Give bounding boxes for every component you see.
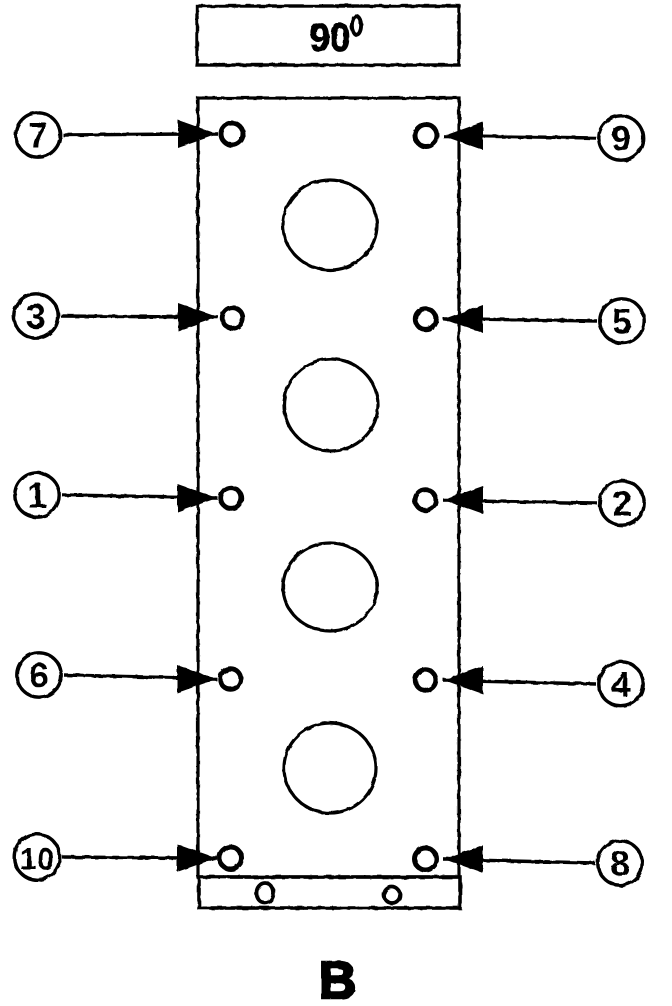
90-degree label box [197,6,459,65]
callout circle 9 [599,116,643,160]
callout circle 4 [599,662,643,706]
callout circle 3 [14,294,58,338]
svg-text:1: 1 [27,477,46,516]
cylinder bore 3 [283,543,377,631]
arrow 2 to bolt row3 right [443,486,597,514]
svg-text:B: B [319,952,357,1006]
callout circle 10 [14,834,60,880]
callout circle 2 [600,481,644,525]
svg-text:90: 90 [310,16,351,60]
svg-text:3: 3 [26,298,45,337]
callout circle 8 [598,841,642,885]
bolt hole row5 right [415,848,437,870]
arrow 1 to bolt row3 left [62,484,218,512]
svg-text:5: 5 [612,303,631,342]
callout circle 6 [17,653,61,697]
cylinder head outline rectangle [198,98,459,877]
bolt hole row2 right [415,309,436,330]
flange hole right [384,887,400,903]
bolt hole row1 left [221,123,243,145]
bolt hole row3 left [221,488,242,509]
svg-text:2: 2 [612,485,631,524]
svg-text:4: 4 [611,666,631,705]
svg-text:10: 10 [20,842,54,877]
bolt hole row3 right [415,490,436,511]
bolt hole row4 left [220,669,241,690]
bolt hole row4 right [415,670,436,691]
arrow 9 to bolt row1 right [443,122,596,150]
svg-text:6: 6 [29,657,48,696]
callout circle 7 [16,113,60,157]
superscript zero of 90 deg [352,16,361,34]
bolt hole row2 left [222,308,243,329]
bolt hole row5 left [220,847,242,869]
svg-text:9: 9 [611,120,630,159]
arrow 10 to bolt row5 left [62,844,217,872]
flange hole left [257,883,274,903]
bottom flange strip [199,877,460,908]
svg-text:8: 8 [610,845,629,884]
arrow 6 to bolt row4 left [64,665,217,693]
svg-text:7: 7 [28,117,47,156]
cylinder bore 1 [283,180,377,270]
bolt hole row1 right [415,125,437,147]
arrow 7 to bolt row1 left [63,120,218,148]
callout circle 1 [15,473,59,517]
label 90 deg text [310,16,351,60]
cylinder bore 4 [284,723,376,813]
arrow 8 to bolt row5 right [443,845,595,873]
arrow 4 to bolt row4 right [443,666,596,694]
callout circle 5 [600,299,644,343]
cylinder bore 2 [284,359,378,451]
arrow 5 to bolt row2 right [443,305,597,333]
arrow 3 to bolt row2 left [61,303,218,331]
